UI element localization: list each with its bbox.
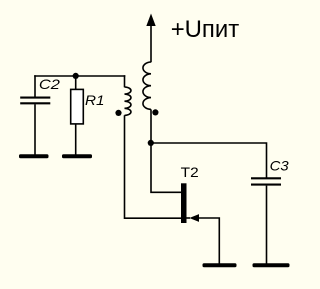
svg-text:C3: C3 <box>270 158 289 174</box>
transformer primary winding L1b (right coil) <box>143 62 151 109</box>
polarity dot, primary <box>152 109 158 115</box>
ground under emitter <box>203 263 237 267</box>
wire: junction to C3 <box>151 143 267 178</box>
transistor T2 emitter arrow <box>187 217 191 219</box>
node: collector junction <box>148 140 154 146</box>
wire: secondary bottom to base of T2 <box>125 115 182 218</box>
wire: junction down and right to collector of T2 <box>151 143 182 193</box>
wire: primary bottom to collector node <box>150 109 152 143</box>
top wire (C2 / R1 / secondary top node) <box>34 75 125 77</box>
wire: C2 to ground <box>34 104 36 155</box>
wire: R1 to ground <box>75 124 77 155</box>
svg-text:T2: T2 <box>181 164 199 180</box>
ground under C2 <box>19 154 49 158</box>
resistor R1 <box>71 89 84 124</box>
power supply arrow +Uпит <box>146 14 155 63</box>
svg-text:+Uпит: +Uпит <box>171 16 240 43</box>
svg-text:R1: R1 <box>85 92 105 108</box>
transformer secondary winding L1a (left coil) <box>125 87 131 115</box>
wire: emitter to ground <box>199 218 220 264</box>
wire: C2 stub from top wire <box>34 75 36 97</box>
transistor T2 base bar <box>181 183 187 223</box>
node: top wire to R1 <box>73 73 79 79</box>
svg-text:C2: C2 <box>39 76 60 92</box>
capacitor C2 <box>20 98 50 104</box>
ground under C3 <box>253 263 290 267</box>
ground under R1 <box>62 154 92 158</box>
wire: R1 top stub <box>75 76 77 90</box>
wire: C3 to ground <box>266 186 268 264</box>
polarity dot, secondary <box>115 110 121 116</box>
capacitor C3 <box>251 178 281 184</box>
wire: secondary top vertical <box>124 75 126 87</box>
